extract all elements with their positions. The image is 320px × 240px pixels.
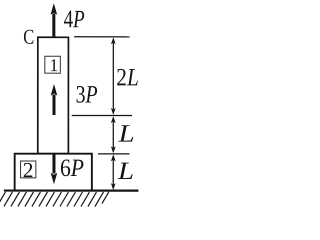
member 1 bar outline: [38, 37, 69, 153]
extension line top (at C level): [74, 36, 130, 38]
extension line at block top: [98, 153, 130, 155]
ground hatching: [0, 192, 109, 207]
svg-text:4P: 4P: [64, 6, 85, 33]
boxed label 1: [45, 55, 61, 75]
svg-text:6P: 6P: [60, 155, 84, 182]
svg-text:2: 2: [23, 158, 34, 182]
dimension line L segment (bottom): [111, 154, 116, 190]
force arrow 6P: [51, 154, 58, 184]
boxed label 2: [21, 158, 36, 182]
dimension line L segment (middle): [111, 116, 116, 153]
extension line at 3P level: [72, 115, 132, 117]
svg-text:2L: 2L: [116, 64, 139, 91]
svg-text:L: L: [117, 158, 134, 185]
dimension line 2L segment: [111, 37, 116, 115]
force arrow 4P: [51, 3, 58, 37]
ground line: [4, 189, 138, 191]
svg-text:C: C: [23, 25, 34, 49]
member 2 base block outline: [15, 154, 92, 191]
svg-text:3P: 3P: [76, 82, 98, 109]
force arrow 3P: [51, 84, 58, 115]
svg-text:1: 1: [49, 55, 58, 75]
svg-text:L: L: [117, 121, 134, 148]
